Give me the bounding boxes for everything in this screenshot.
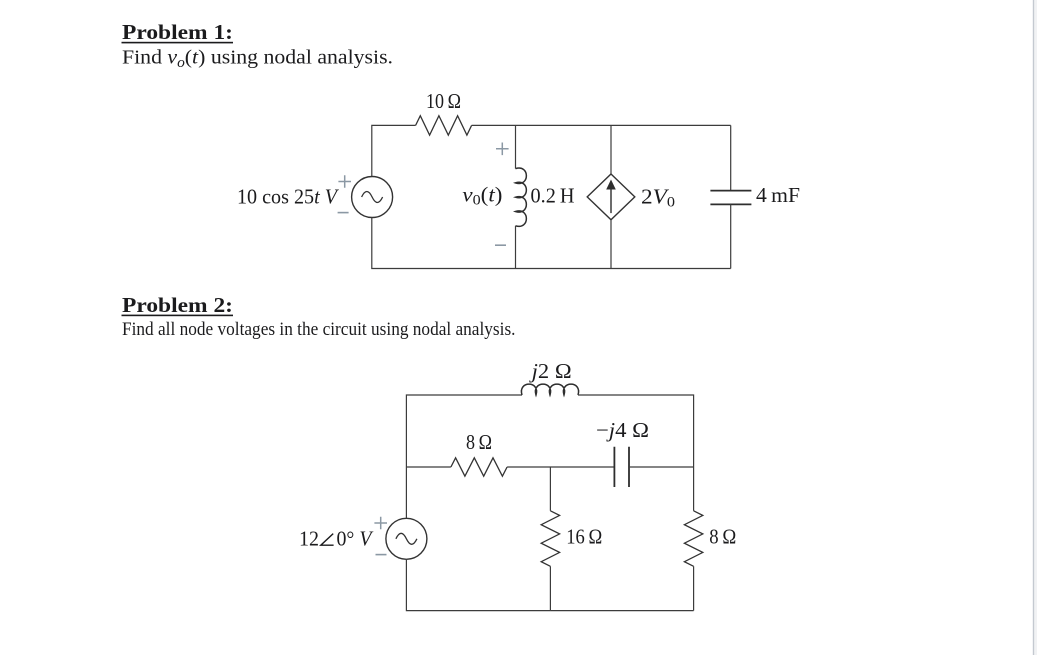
svg-text:Problem 1:: Problem 1: [122,20,233,44]
minus mark vo(t) [495,244,506,246]
wire right branch bottom lead [693,566,695,610]
inductor L j2ohm coils [521,384,578,395]
minus mark VS1 [338,212,349,214]
wire inductor branch bottom lead [515,226,517,269]
svg-text:16 Ω: 16 Ω [566,526,602,548]
svg-text:Find all node voltages in the: Find all node voltages in the circuit us… [122,319,516,340]
wire dependent source top lead [610,125,612,174]
scrollbar track band [1034,0,1037,655]
svg-text:0° V: 0° V [337,529,374,551]
svg-text:12: 12 [299,529,319,551]
plus mark VS1 [338,175,351,188]
wire right branch top lead [730,125,732,190]
svg-text:Problem 2:: Problem 2: [122,293,233,317]
wire inductor branch top lead [515,125,517,168]
heading Problem 1 [122,20,234,44]
minus mark VS2 [376,554,387,556]
wire right branch bottom lead [730,204,732,268]
svg-text:2V0: 2V0 [641,186,675,210]
label 12 angle 0 V [299,529,374,551]
svg-text:4 mF: 4 mF [756,185,800,207]
resistor R 10ohm zigzag [416,116,472,135]
wire top-left segment (source top to resistor) [372,125,416,176]
wire middle branch top lead [549,467,551,511]
resistor R 8ohm vertical zigzag [684,511,702,567]
sine symbol in VS1 [362,192,383,203]
wire mid right segment [629,466,694,468]
wire source bottom to bottom-left corner [372,218,516,269]
wire mid middle segment [507,466,614,468]
svg-text:Find vo(t) using nodal analysi: Find vo(t) using nodal analysis. [122,47,393,71]
wire top-left (left vertical top + top wire to inductor) [406,395,522,467]
wire middle branch bottom lead [549,566,551,610]
svg-text:8 Ω: 8 Ω [709,526,736,548]
wire top middle (resistor to right corner) [472,124,731,126]
voltage source VS1 circle [352,177,393,218]
wire top right segment [578,395,694,467]
arrow inside dependent source [610,188,612,214]
window edge line [1033,0,1035,655]
caption Find all node voltages [122,319,516,340]
svg-text:10 Ω: 10 Ω [426,91,461,113]
wire source VS2 top lead [405,467,407,518]
heading Problem 2 [122,293,234,317]
dependent current source U1 diamond [587,174,635,220]
capacitor C -j4ohm plates [614,447,629,487]
svg-text:0.2 H: 0.2 H [531,186,575,208]
wire right branch top lead [693,467,695,511]
wire bottom middle segment [516,268,731,270]
voltage source VS2 circle [386,518,427,559]
plus mark vo(t) [496,143,509,156]
resistor R 16ohm vertical zigzag [541,511,559,567]
sine symbol in VS2 [396,533,417,544]
plus mark VS2 [374,517,387,530]
capacitor C 4mF plates [710,191,751,205]
inductor L 0.2H coils [516,168,527,226]
svg-text:10 cos 25t V: 10 cos 25t V [237,187,339,209]
svg-text:v0(t): v0(t) [462,184,502,208]
resistor R 8ohm horizontal zigzag [451,458,507,476]
svg-text:8 Ω: 8 Ω [466,432,492,454]
caption Find vo(t) using nodal analysis [122,47,393,71]
svg-text:−j4 Ω: −j4 Ω [596,420,649,442]
wire bottom middle segment [550,610,693,612]
wire mid-left segment [406,466,451,468]
wire source VS2 bottom lead to bottom-left corner [406,559,550,610]
wire dependent source bottom lead [610,220,612,269]
svg-text:j2 Ω: j2 Ω [528,361,571,383]
